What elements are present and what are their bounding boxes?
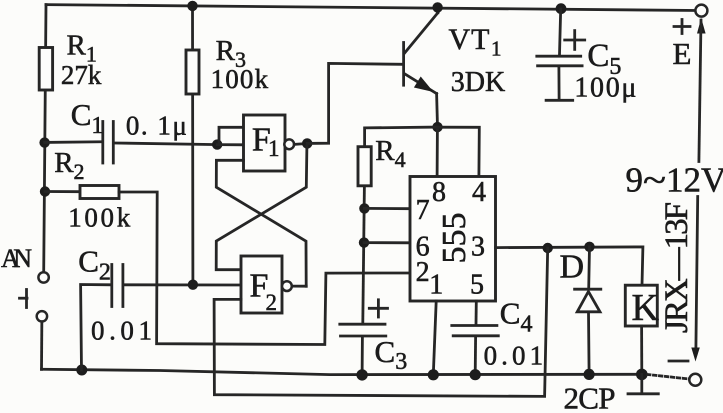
wire feedback to F2 lower input <box>214 248 548 396</box>
svg-text:3DK: 3DK <box>451 67 505 98</box>
plus C5 <box>565 31 585 50</box>
node VT1 emitter junction <box>432 122 442 132</box>
svg-text:0.01: 0.01 <box>91 316 152 346</box>
svg-text:1: 1 <box>268 136 280 161</box>
wire pin1 down <box>433 301 436 375</box>
wire bottom rail <box>42 369 643 374</box>
svg-text:2: 2 <box>416 257 430 288</box>
capacitor C4 <box>452 326 499 375</box>
node C4 bottom junction <box>470 369 481 380</box>
diode D <box>575 247 601 375</box>
svg-text:E: E <box>673 36 692 71</box>
node R4-pin6 junction <box>359 237 369 247</box>
svg-text:27k: 27k <box>61 60 102 90</box>
wire pin5 down <box>475 301 478 324</box>
relay K <box>625 285 657 326</box>
svg-text:5: 5 <box>470 270 484 301</box>
wire pin6 stub <box>364 241 410 244</box>
wire F1 output to VT1 base <box>307 63 402 143</box>
node R2 left junction <box>40 186 50 196</box>
svg-text:100μ: 100μ <box>574 73 636 104</box>
wire left rail <box>44 5 46 272</box>
node C2 bottom junction <box>76 365 87 376</box>
svg-text:0.01: 0.01 <box>484 341 543 371</box>
node pin1 bottom junction <box>428 369 439 380</box>
flipflop F2 <box>241 256 282 313</box>
wire AN to bottom rail <box>40 322 43 370</box>
resistor R4 <box>358 147 371 323</box>
wire F1 mid input <box>217 143 243 146</box>
svg-text:1: 1 <box>429 270 443 301</box>
svg-text:JRX—13F: JRX—13F <box>659 202 695 333</box>
bubble F1 output <box>284 139 294 149</box>
terminal minus <box>689 374 701 386</box>
node R4-pin7 junction <box>359 203 369 213</box>
wire F2 output <box>292 285 307 288</box>
node R3 top junction <box>187 1 197 11</box>
wire right rail lower <box>696 197 698 349</box>
node K bottom junction <box>636 369 648 381</box>
node F1 input junction <box>212 139 222 149</box>
resistor R3 <box>186 5 199 284</box>
node F1 output junction <box>302 138 312 148</box>
wire F1 upper input stub <box>219 127 244 144</box>
wire F1 lower input to cross <box>216 160 306 286</box>
wire pin7 stub <box>364 207 410 210</box>
minus sign <box>669 360 688 363</box>
wire C2 left <box>81 285 111 371</box>
transistor VT1 <box>404 6 438 124</box>
resistor R1 <box>39 48 52 91</box>
capacitor C5 <box>537 9 582 100</box>
svg-text:3: 3 <box>471 232 485 263</box>
ground <box>628 374 658 393</box>
node C1-left junction <box>39 137 49 147</box>
capacitor C3 <box>340 324 386 375</box>
svg-text:8: 8 <box>432 177 446 208</box>
wire C1 right to F1 input <box>115 143 217 145</box>
svg-text:D: D <box>560 249 585 286</box>
wire R2 right to 555 pin2 <box>119 192 410 345</box>
wire C1 left <box>45 140 102 143</box>
arrow up at plus terminal <box>697 18 706 34</box>
wire emitter to R4 top <box>365 127 438 147</box>
svg-text:7: 7 <box>416 195 430 226</box>
flipflop F1 <box>244 115 286 171</box>
plus sign E <box>674 20 690 34</box>
wire emitter to pin4 <box>438 127 480 176</box>
wire dotted to negative terminal <box>648 375 690 380</box>
wire right rail upper <box>699 20 701 162</box>
wire F1 output down to cross <box>216 146 307 270</box>
wire C2 right to F2 input <box>125 283 242 286</box>
svg-text:1: 1 <box>491 37 502 61</box>
svg-text:555: 555 <box>436 213 473 264</box>
svg-text:AN: AN <box>1 244 32 273</box>
resistor R2 <box>80 186 119 199</box>
wire K bottom <box>640 326 643 374</box>
node C5 top junction <box>556 3 567 14</box>
svg-text:K: K <box>632 287 660 329</box>
capacitor C1 <box>103 122 114 164</box>
node diode bottom junction <box>584 369 595 380</box>
wire F1 output <box>294 142 307 146</box>
arrow right rail <box>691 348 700 362</box>
svg-text:4: 4 <box>472 177 486 208</box>
pushbutton AN <box>20 272 49 321</box>
svg-text:100k: 100k <box>211 64 269 94</box>
svg-text:2: 2 <box>266 290 278 315</box>
svg-text:VT: VT <box>449 23 490 56</box>
IC 555 <box>410 177 496 302</box>
terminal plus E <box>695 5 707 17</box>
capacitor C2 <box>112 265 123 307</box>
wire R2 left <box>45 190 80 193</box>
node VT1 collector junction <box>432 2 442 12</box>
wire pin8 <box>436 130 439 177</box>
node diode top junction <box>584 242 594 252</box>
node C3 bottom junction <box>356 369 367 380</box>
node pin3 feedback junction <box>543 243 553 253</box>
node C2-R3-F2 junction <box>188 280 198 290</box>
bubble F2 output <box>282 281 292 291</box>
wire top rail <box>46 5 697 11</box>
plus C3 <box>369 300 387 317</box>
wire pin3 to relay <box>496 247 643 285</box>
svg-text:9~12V: 9~12V <box>626 161 723 200</box>
svg-text:2CP: 2CP <box>564 381 616 413</box>
